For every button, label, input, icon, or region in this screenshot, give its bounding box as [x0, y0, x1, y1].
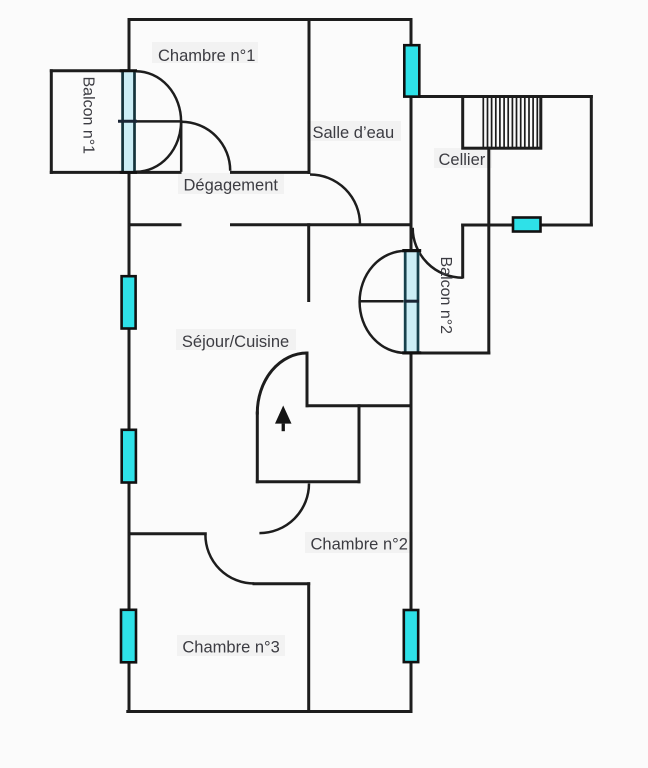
- window Sejour west lower: [122, 430, 136, 483]
- text halo Chambre n2: [305, 532, 413, 553]
- door arc Chambre n3: [205, 535, 254, 584]
- wall: Chambre n1 south (right of door): [232, 171, 310, 174]
- wall: niche top vertical: [306, 353, 309, 406]
- svg-text:Séjour/Cuisine: Séjour/Cuisine: [182, 333, 289, 351]
- wall: Cellier north: [411, 95, 591, 98]
- svg-text:Chambre n°2: Chambre n°2: [311, 536, 408, 554]
- wall: divider Sejour / vestibule: [307, 225, 310, 301]
- wall: divider Chambre n1 / Salle d'eau: [308, 20, 311, 173]
- wall: niche west: [256, 413, 259, 482]
- text halo Chambre n3: [177, 635, 285, 656]
- door semicircle Balcon n2: [360, 251, 406, 353]
- window Balcon n1 (tall pale strip): [118, 70, 137, 174]
- wall: niche corner arc: [257, 353, 307, 413]
- window Chambre n2 east: [404, 610, 418, 662]
- wall: Chambre n1 south (balcony side): [51, 171, 180, 174]
- wall: Cellier east: [590, 97, 593, 226]
- door mid-line Balcon n1: [135, 120, 182, 123]
- svg-text:Salle d’eau: Salle d’eau: [313, 124, 395, 142]
- svg-text:Balcon n°2: Balcon n°2: [437, 257, 454, 335]
- door leaf Chambre n1: [180, 121, 183, 171]
- window Balcon n2 (tall pale strip): [402, 250, 421, 353]
- wall: east mid (Salle d'eau to Balcon n2): [410, 97, 413, 252]
- door mid-line Balcon n2: [360, 300, 414, 303]
- wall: niche south: [257, 480, 359, 483]
- wall: east lower (Chambre n2): [410, 353, 413, 712]
- door arcs: [135, 71, 463, 583]
- wall: Chambre n2/n3 top divider: [254, 582, 309, 585]
- mid dash Balcon n2: [405, 300, 420, 303]
- text halo Chambre n1: [152, 42, 258, 63]
- small turquoise windows: [121, 45, 541, 662]
- wall: top outer (Chambre n1 / Salle d'eau north): [129, 18, 411, 21]
- text halo Degagement: [178, 173, 284, 194]
- door semicircle Balcon n1: [136, 71, 181, 172]
- wall: Chambre n3 north: [129, 532, 205, 535]
- wall: Cellier door leaf: [461, 225, 464, 277]
- north arrow: [275, 406, 292, 432]
- stairs hatching: [483, 97, 537, 149]
- wall: divider Chambre n2 / n3: [307, 584, 310, 712]
- wall: west outer: [128, 20, 131, 712]
- wall: bottom outer: [128, 710, 411, 713]
- wall: niche top horizontal to east wall: [307, 404, 411, 407]
- mid dash Balcon n1: [118, 120, 137, 123]
- door arc Chambre n2: [259, 484, 309, 534]
- svg-text:Chambre n°3: Chambre n°3: [182, 639, 279, 657]
- wall: Degagement south right segment: [232, 223, 412, 226]
- svg-text:Dégagement: Dégagement: [184, 177, 279, 195]
- window Chambre n3 west: [121, 610, 136, 663]
- window Salle d'eau east: [404, 45, 419, 96]
- wall: east upper (Salle d'eau): [410, 20, 413, 97]
- wall: Balcon n1 north: [51, 69, 129, 72]
- wall: below stairs: [487, 148, 490, 353]
- wall: Balcon n1 west: [50, 71, 53, 173]
- wall: Degagement south left segment: [129, 223, 180, 226]
- door arc Salle d'eau: [310, 175, 360, 225]
- text halo Salle d'eau: [307, 121, 401, 141]
- wall: Cellier south: [463, 224, 592, 227]
- stairs box: [463, 97, 541, 149]
- window Cellier south (horizontal): [513, 218, 541, 232]
- text halo Cellier: [434, 148, 492, 168]
- svg-text:Balcon n°1: Balcon n°1: [80, 77, 97, 155]
- wall: niche east: [358, 406, 361, 482]
- wall: Balcon n2 south: [405, 352, 489, 355]
- window Sejour west upper: [122, 276, 136, 328]
- text halo Sejour/Cuisine: [176, 329, 296, 350]
- svg-text:Cellier: Cellier: [439, 151, 486, 169]
- door arc Chambre n1: [181, 122, 230, 171]
- door arc Cellier: [413, 228, 463, 278]
- svg-text:Chambre n°1: Chambre n°1: [158, 47, 255, 65]
